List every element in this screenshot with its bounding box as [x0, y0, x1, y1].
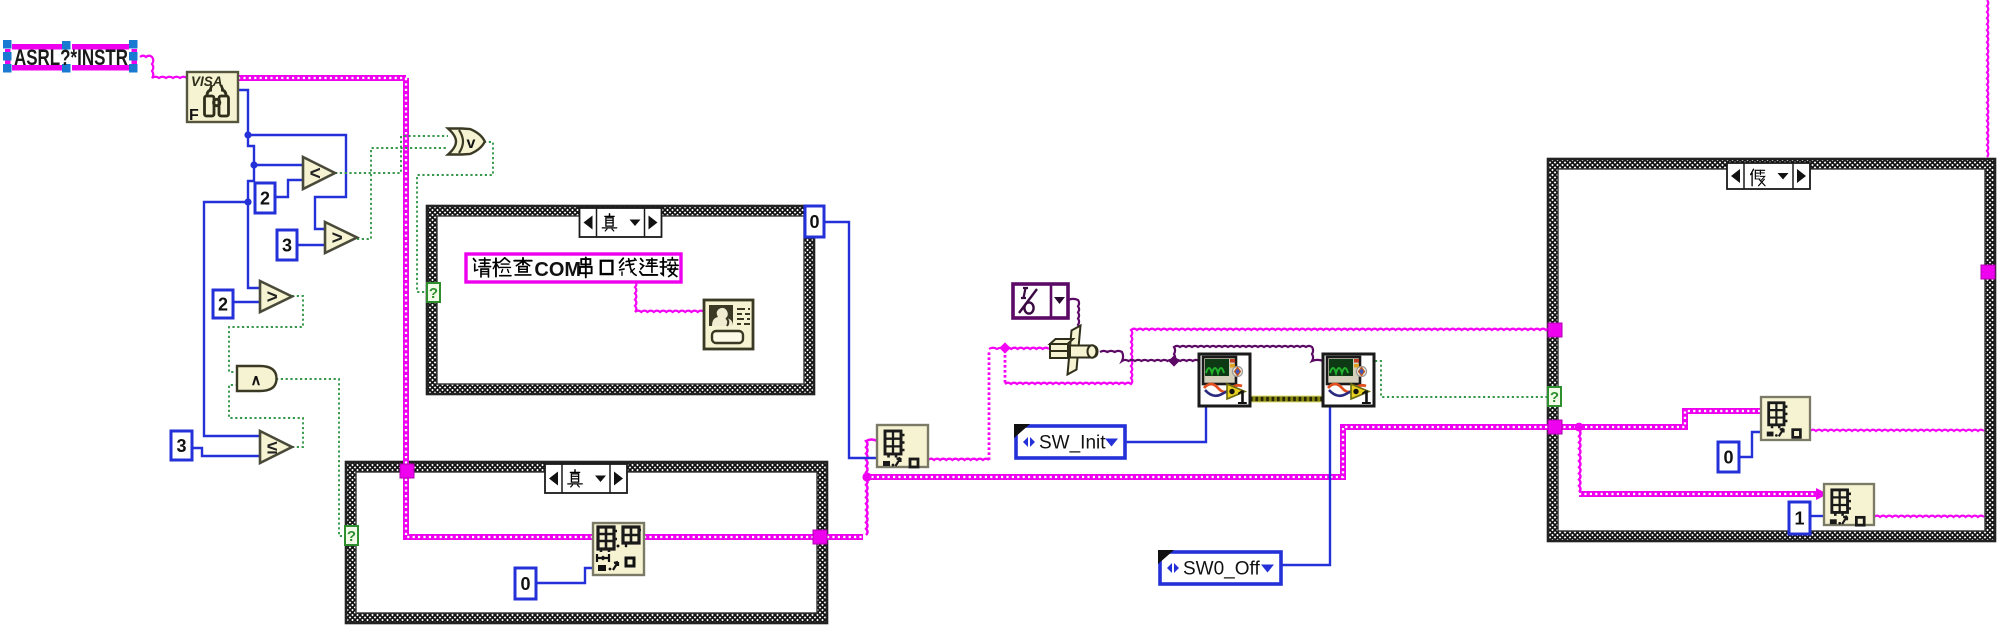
numeric constant 3b [171, 431, 192, 460]
svg-text:∧: ∧ [251, 372, 262, 389]
case structure 3 selector terminal [1548, 387, 1561, 406]
case structure 1 selector terminal [427, 283, 440, 302]
junction visa diamond [1168, 355, 1179, 366]
wire numeric const3b to lessequal bottom [192, 448, 260, 456]
wire visa-resource IO const to propeller [1068, 299, 1079, 331]
wire string junction to propeller [1005, 348, 1049, 349]
case structure 1 output tunnel 0 [805, 206, 824, 237]
comparator less-than [303, 157, 335, 189]
wire numeric dot3 down to greater3 top [248, 202, 260, 288]
svg-text:v: v [467, 135, 476, 152]
IO resource constant [1013, 284, 1068, 318]
svg-text:?: ? [347, 528, 356, 545]
wire numeric case1-0 to index array [824, 222, 877, 458]
case structure 2 right tunnel [813, 530, 827, 544]
wire string ASRL to VISA [140, 56, 187, 78]
wire boolean less-out to or top [335, 136, 448, 173]
case structure 2 label true [545, 464, 627, 493]
numeric constant 0c case3 [1718, 442, 1739, 472]
wire numeric const2a to less bottom [274, 180, 303, 197]
svg-text:3: 3 [176, 436, 186, 456]
message string constant [466, 254, 681, 282]
wire boolean greater2-out to or bottom [357, 148, 448, 239]
svg-text:0: 0 [809, 212, 819, 232]
wire numeric VISA to comparators [238, 90, 254, 165]
junction dot bus corner [862, 472, 871, 481]
wire string-array case3 to index1 [1558, 411, 1761, 427]
wire error cluster subvi1 to subvi2 [1250, 395, 1323, 403]
svg-text:2: 2 [218, 294, 228, 314]
svg-text:<: < [310, 164, 321, 185]
numeric constant 3a [277, 230, 297, 260]
wire numeric const0b to replace-array [536, 568, 593, 583]
numeric constant 2a [255, 183, 275, 213]
svg-text:≤: ≤ [267, 438, 277, 459]
one button dialog icon [704, 300, 753, 349]
junction pink mid diamond [999, 342, 1010, 353]
wire string-array case3 to index2 [1579, 491, 1818, 497]
case structure 1 label true [580, 208, 662, 237]
wire string-array riser to index input [866, 440, 877, 535]
wire string-array long bus y476 [866, 427, 1552, 477]
case structure 1 frame [427, 206, 814, 394]
svg-text:>: > [332, 228, 343, 249]
wire boolean or-out to case1 selector [417, 142, 493, 292]
case structure 2 top tunnel [400, 464, 414, 478]
wire string junction to long bus y330 [1005, 329, 1552, 384]
comparator greater-than 3 [260, 281, 292, 312]
wire string case3 index1 out [1810, 430, 1984, 431]
case structure 3 left tunnel a [1548, 323, 1562, 337]
svg-text:0: 0 [520, 574, 530, 594]
wire string-array VISA output horizontal [238, 75, 406, 81]
svg-text:0: 0 [1723, 447, 1733, 467]
waveform subvi 2 [1323, 354, 1374, 409]
junction case3 [1575, 423, 1584, 432]
wire numeric staircase to greater2 top [248, 135, 346, 229]
wire string-array replace-out to tunnel [644, 534, 820, 540]
case structure 3 left tunnel b [1548, 420, 1562, 434]
svg-text:ASRL?*INSTR: ASRL?*INSTR [14, 45, 128, 70]
svg-text:?: ? [1550, 389, 1559, 406]
numeric constant 2b [213, 290, 233, 318]
wire string message to dialog [635, 281, 704, 312]
wire numeric const0c to index1 case3 [1738, 432, 1761, 457]
local variable SW0_Off [1158, 550, 1281, 584]
svg-text:1: 1 [1794, 508, 1804, 528]
wire string index-mid output [928, 459, 989, 460]
wire string-array junction short down [1004, 350, 1007, 384]
comparator less-equal [260, 431, 292, 463]
string constant ASRL?*INSTR selected [3, 40, 138, 73]
case structure 2 frame [346, 462, 827, 623]
wire numeric const1c to index2 case3 [1810, 515, 1824, 517]
index array icon case3 b [1824, 484, 1874, 525]
svg-text:COM: COM [534, 259, 581, 281]
or gate [448, 129, 485, 155]
local variable SW_Init [1014, 424, 1125, 458]
case structure 2 selector terminal [345, 526, 358, 545]
case structure 3 frame [1548, 159, 1995, 541]
wire string-array vertical trunk [403, 78, 409, 466]
svg-text:SW0_Off: SW0_Off [1183, 559, 1260, 580]
wire numeric const2b to greater3 bottom [233, 301, 260, 303]
svg-text:2: 2 [260, 188, 270, 208]
wire visa-resource propeller to subvis [1100, 351, 1199, 361]
wire boolean subvi2 to case3 selector [1375, 361, 1548, 397]
visa open propeller icon [1050, 326, 1098, 375]
and gate [237, 366, 277, 391]
wire numeric dot2 down to dot3 [248, 165, 254, 202]
wire numeric dot3 left-down to lessequal top [204, 202, 260, 436]
wire numeric subvi2 to SW0_Off [1281, 406, 1330, 565]
junction dot2 [250, 161, 257, 168]
wire numeric const3a to greater2 bottom [296, 244, 325, 246]
case structure 3 label false [1727, 163, 1810, 189]
case structure 3 right tunnel [1981, 265, 1995, 279]
numeric constant 1c case3 [1789, 502, 1810, 534]
replace array subset icon [593, 523, 644, 575]
wire string-array inside case2 [406, 468, 593, 537]
wire string-array case2 tunnel to corner [827, 534, 863, 540]
waveform subvi 1 [1199, 354, 1250, 409]
wire boolean and-out to case2 selector [276, 379, 345, 536]
wire string top right vertical [1987, 0, 1988, 157]
wire boolean greater3-out to and top [229, 296, 303, 372]
junction dot1 [244, 131, 251, 138]
VISA find resource icon [187, 72, 238, 124]
wire string-array case3 riser down [1579, 430, 1581, 492]
index array icon case3 a [1761, 397, 1810, 440]
wire numeric dot2 to less top input [254, 164, 303, 166]
svg-text:?: ? [429, 285, 438, 302]
comparator greater-than 2 [325, 222, 357, 253]
wire boolean lessequal-out to and bottom [229, 385, 303, 447]
wire numeric SW_Init to subvi1 [1125, 406, 1206, 442]
svg-text:>: > [267, 287, 278, 308]
numeric constant 0b case2 [515, 568, 536, 599]
junction dot3 [244, 198, 251, 205]
svg-text:1: 1 [1237, 388, 1248, 409]
svg-text:1: 1 [1361, 388, 1372, 409]
svg-text:F: F [189, 107, 199, 124]
wire string case3 index2 out [1874, 516, 1984, 517]
wire string-array vertical dotted riser [988, 350, 991, 460]
svg-text:VISA: VISA [191, 74, 223, 89]
index array icon middle [877, 425, 928, 467]
svg-text:SW_Init: SW_Init [1039, 433, 1106, 454]
svg-text:3: 3 [282, 235, 292, 255]
